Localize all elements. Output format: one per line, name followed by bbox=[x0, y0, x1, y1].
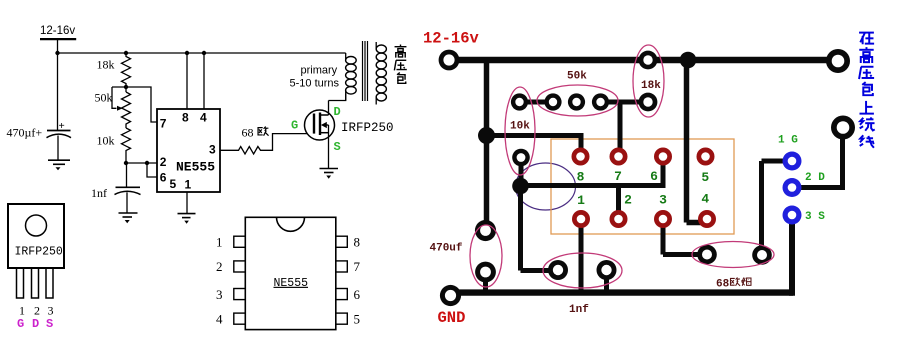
svg-text:GND: GND bbox=[438, 309, 466, 327]
svg-text:NE555: NE555 bbox=[274, 277, 309, 290]
svg-text:8: 8 bbox=[354, 235, 361, 250]
svg-text:+: + bbox=[59, 120, 65, 132]
svg-text:7: 7 bbox=[354, 259, 361, 274]
svg-text:2: 2 bbox=[34, 304, 40, 318]
svg-text:18k: 18k bbox=[97, 58, 115, 72]
svg-text:IRFP250: IRFP250 bbox=[341, 121, 394, 135]
svg-text:S: S bbox=[334, 140, 341, 154]
svg-text:1: 1 bbox=[185, 178, 192, 192]
svg-text:NE555: NE555 bbox=[176, 160, 215, 175]
svg-text:6: 6 bbox=[650, 169, 658, 184]
svg-text:4: 4 bbox=[200, 110, 207, 124]
svg-text:10k: 10k bbox=[97, 134, 115, 148]
svg-text:7: 7 bbox=[160, 117, 167, 131]
svg-text:2: 2 bbox=[160, 155, 167, 169]
svg-text:12-16v: 12-16v bbox=[423, 30, 480, 48]
svg-text:8: 8 bbox=[182, 110, 189, 124]
svg-text:6: 6 bbox=[160, 171, 167, 185]
svg-text:S: S bbox=[46, 317, 53, 331]
svg-text:3: 3 bbox=[48, 304, 54, 318]
svg-text:18k: 18k bbox=[641, 80, 661, 92]
svg-text:2: 2 bbox=[624, 193, 632, 208]
svg-text:8: 8 bbox=[577, 170, 585, 185]
svg-text:5: 5 bbox=[354, 311, 361, 326]
svg-text:4: 4 bbox=[216, 311, 223, 326]
svg-text:3: 3 bbox=[209, 143, 216, 157]
svg-text:G: G bbox=[17, 317, 24, 331]
svg-text:1: 1 bbox=[216, 235, 223, 250]
svg-text:7: 7 bbox=[614, 169, 622, 184]
svg-text:68: 68 bbox=[242, 126, 254, 140]
svg-text:2: 2 bbox=[216, 259, 223, 274]
svg-text:primary: primary bbox=[301, 65, 338, 77]
svg-text:470uf: 470uf bbox=[430, 243, 463, 255]
svg-text:12-16v: 12-16v bbox=[40, 25, 75, 37]
svg-text:3: 3 bbox=[216, 287, 223, 302]
svg-text:3 S: 3 S bbox=[805, 211, 825, 223]
svg-text:IRFP250: IRFP250 bbox=[15, 246, 63, 259]
svg-text:D: D bbox=[334, 105, 341, 119]
svg-text:470µf+: 470µf+ bbox=[7, 126, 43, 140]
svg-text:5: 5 bbox=[701, 170, 709, 185]
svg-text:68: 68 bbox=[716, 279, 730, 291]
svg-text:1: 1 bbox=[577, 193, 585, 208]
svg-text:50k: 50k bbox=[95, 91, 113, 105]
svg-text:50k: 50k bbox=[567, 71, 587, 83]
svg-text:5-10 turns: 5-10 turns bbox=[290, 78, 340, 90]
svg-text:1nf: 1nf bbox=[91, 186, 107, 200]
svg-text:D: D bbox=[32, 317, 39, 331]
svg-text:1: 1 bbox=[19, 304, 25, 318]
svg-text:2 D: 2 D bbox=[805, 172, 825, 184]
svg-text:4: 4 bbox=[701, 192, 709, 207]
svg-text:G: G bbox=[291, 119, 298, 133]
svg-text:6: 6 bbox=[354, 287, 361, 302]
svg-text:3: 3 bbox=[659, 193, 667, 208]
svg-text:1nf: 1nf bbox=[569, 304, 589, 316]
svg-text:1 G: 1 G bbox=[778, 135, 798, 147]
svg-text:5: 5 bbox=[170, 177, 177, 191]
svg-text:10k: 10k bbox=[510, 121, 530, 133]
